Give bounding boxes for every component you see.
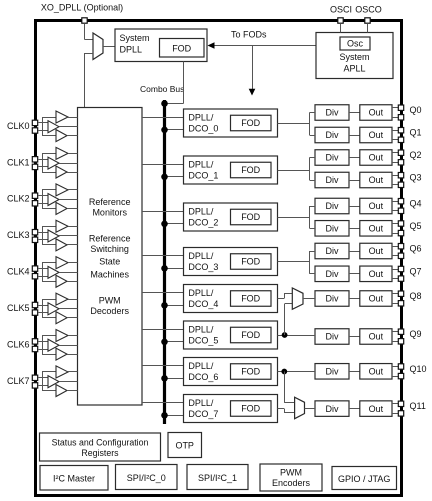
output driver Out Q5 xyxy=(360,221,392,237)
svg-text:CLK4: CLK4 xyxy=(7,267,30,277)
label Reference Monitors xyxy=(89,197,131,218)
junction Combo Bus tap 7 xyxy=(161,412,168,419)
wire Reference Monitors to DPLL/DCO_2 (crosses bus) xyxy=(142,211,184,213)
pin OSCO xyxy=(365,18,370,23)
wire Out Q3 to pins xyxy=(392,176,399,185)
pin Q1 P xyxy=(398,128,403,133)
svg-text:SPI/I²C_1: SPI/I²C_1 xyxy=(198,473,237,483)
pin Q1 N xyxy=(398,137,403,142)
block GPIO / JTAG xyxy=(332,467,397,490)
svg-text:Div: Div xyxy=(326,294,339,304)
svg-text:I²C Master: I²C Master xyxy=(53,473,95,483)
wire Out Q11 to pins xyxy=(392,404,399,414)
wire CLK7 buffer fanout bracket xyxy=(42,372,56,391)
block DPLL/DCO_4 xyxy=(184,285,278,313)
divider Div Q4 xyxy=(315,198,349,214)
pin Q8 P xyxy=(398,291,403,296)
buffer CLK6 single-ended bottom xyxy=(56,348,67,360)
label FOD 2 xyxy=(241,212,260,222)
FOD inside DPLL/DCO_4 xyxy=(231,291,272,307)
wire CLK3 pin stubs xyxy=(38,233,48,240)
svg-text:Out: Out xyxy=(369,404,384,414)
pin CLK0 N xyxy=(32,128,37,133)
svg-text:Div: Div xyxy=(326,153,339,163)
wire Combo Bus to DPLL/DCO_4 xyxy=(165,305,184,307)
svg-text:Out: Out xyxy=(369,108,384,118)
block System APLL xyxy=(316,33,393,79)
wire DPLL/DCO_7 output jog xyxy=(278,409,295,413)
pin Q9 P xyxy=(398,329,403,334)
FOD inside DPLL/DCO_3 xyxy=(231,254,272,270)
pin CLK6 P xyxy=(32,339,37,344)
svg-text:Q10: Q10 xyxy=(410,364,427,374)
label OSCO xyxy=(355,4,382,14)
block DPLL/DCO_1 xyxy=(184,156,278,184)
wire XO_DPLL pin to mux top input xyxy=(85,23,94,39)
svg-text:FOD: FOD xyxy=(241,212,260,222)
wire Combo Bus to DPLL/DCO_5 xyxy=(165,341,184,343)
svg-text:FOD: FOD xyxy=(241,367,260,377)
wire DPLL/DCO_3 output xyxy=(278,261,310,263)
wire DPLL/DCO_6 output to Div Q10 xyxy=(278,371,316,373)
buffer CLK3 differential middle xyxy=(48,230,59,242)
wire CLK4 buffer outputs to Reference Monitors xyxy=(59,263,78,282)
label GPIO / JTAG xyxy=(338,474,390,484)
buffer CLK1 single-ended bottom xyxy=(56,166,67,178)
buffer CLK1 differential middle xyxy=(48,157,59,169)
pin Q4 P xyxy=(398,199,403,204)
wire System DPLL output to Combo Bus xyxy=(165,62,184,104)
arrowhead down toward DPLL/DCO FODs xyxy=(249,89,256,96)
svg-text:FOD: FOD xyxy=(172,44,191,54)
pin Q5 P xyxy=(398,221,403,226)
label DPLL/DCO_3 xyxy=(188,251,218,272)
divider Div Q10 xyxy=(315,364,349,380)
divider Div Q1 xyxy=(315,127,349,143)
label Div Q2 xyxy=(326,153,339,163)
block Reference Monitors / Switching / PWM Decoders xyxy=(78,108,143,406)
label DPLL/DCO_4 xyxy=(188,288,218,309)
wire Reference Monitors to DPLL/DCO_3 (crosses bus) xyxy=(142,255,184,257)
label DPLL/DCO_1 xyxy=(188,159,218,180)
pin XO_DPLL xyxy=(82,18,87,23)
wire Out Q2 to pins xyxy=(392,153,399,163)
divider Div Q3 xyxy=(315,172,349,188)
svg-text:DPLL/: DPLL/ xyxy=(188,159,214,169)
label Out Q4 xyxy=(369,201,384,211)
pin CLK4 N xyxy=(32,274,37,279)
svg-text:DCO_0: DCO_0 xyxy=(188,123,218,133)
output driver Out Q9 xyxy=(360,329,392,345)
svg-text:DPLL/: DPLL/ xyxy=(188,398,214,408)
Osc inside System APLL xyxy=(340,37,370,50)
label SPI/I2C_0 xyxy=(127,473,166,483)
label System DPLL xyxy=(120,33,150,55)
label CLK3 xyxy=(7,230,30,240)
svg-text:DCO_3: DCO_3 xyxy=(188,262,218,272)
svg-text:CLK6: CLK6 xyxy=(7,339,30,349)
pin CLK5 N xyxy=(32,310,37,315)
pin Q5 N xyxy=(398,230,403,235)
wire CLK7 buffer outputs to Reference Monitors xyxy=(59,372,78,391)
block SPI/I2C_1 xyxy=(187,465,248,490)
buffer CLK2 single-ended bottom xyxy=(56,202,67,214)
svg-text:CLK3: CLK3 xyxy=(7,230,30,240)
svg-text:DCO_7: DCO_7 xyxy=(188,409,218,419)
label DPLL/DCO_6 xyxy=(188,361,218,382)
svg-text:Out: Out xyxy=(369,246,384,256)
label Reference Switching State Machines xyxy=(89,234,131,280)
buffer CLK7 single-ended top xyxy=(56,366,68,378)
wire Reference Monitors to DPLL/DCO_0 (crosses bus) xyxy=(142,117,184,119)
label Div Q9 xyxy=(326,332,339,342)
label DPLL/DCO_0 xyxy=(188,112,218,133)
label CLK2 xyxy=(7,194,30,204)
svg-text:DPLL/: DPLL/ xyxy=(188,361,214,371)
label Out Q7 xyxy=(369,269,384,279)
pin CLK0 P xyxy=(32,120,37,125)
wire fork to Q6/Q7 xyxy=(310,251,316,274)
block PWM Encoders xyxy=(260,464,322,491)
svg-text:Out: Out xyxy=(369,294,384,304)
pin Q3 N xyxy=(398,182,403,187)
label FOD 0 xyxy=(241,118,260,128)
label I2C Master xyxy=(53,473,95,483)
pin Q10 N xyxy=(398,373,403,378)
label Div Q8 xyxy=(326,294,339,304)
wire Div to Out Q6 xyxy=(349,251,360,253)
wire Reference Monitors to DPLL/DCO_4 (crosses bus) xyxy=(142,292,184,294)
wire Out Q8 to pins xyxy=(392,294,399,304)
label CLK4 xyxy=(7,267,30,277)
label Div Q6 xyxy=(326,246,339,256)
pin Q7 P xyxy=(398,266,403,271)
wire CLK2 buffer outputs to Reference Monitors xyxy=(59,190,78,209)
wire CLK1 pin stubs xyxy=(38,160,48,167)
wire fork to Q0/Q1 xyxy=(310,113,316,136)
pin CLK1 P xyxy=(32,157,37,162)
wire CLK3 buffer fanout bracket xyxy=(42,226,56,245)
buffer CLK3 single-ended bottom xyxy=(56,239,67,251)
output driver Out Q11 xyxy=(360,401,392,417)
svg-text:Osc: Osc xyxy=(347,39,364,49)
label FOD 3 xyxy=(241,257,260,267)
svg-text:DCO_4: DCO_4 xyxy=(188,299,218,309)
svg-text:Div: Div xyxy=(326,332,339,342)
label OSCI xyxy=(330,4,352,14)
svg-text:Div: Div xyxy=(326,224,339,234)
buffer CLK5 single-ended top xyxy=(56,293,68,305)
svg-text:Out: Out xyxy=(369,153,384,163)
svg-text:Q7: Q7 xyxy=(410,266,422,276)
svg-text:DCO_1: DCO_1 xyxy=(188,170,218,180)
svg-text:PWM: PWM xyxy=(99,296,121,306)
svg-text:Out: Out xyxy=(369,224,384,234)
wire OSCO stub xyxy=(367,23,369,32)
svg-text:State: State xyxy=(99,257,120,267)
wire fork to Q4/Q5 xyxy=(310,206,316,229)
label CLK1 xyxy=(7,157,30,167)
label CLK0 xyxy=(7,121,30,131)
wire CLK3 buffer outputs to Reference Monitors xyxy=(59,227,78,245)
label SPI/I2C_1 xyxy=(198,473,237,483)
label FOD 1 xyxy=(241,165,260,175)
svg-text:Out: Out xyxy=(369,367,384,377)
svg-text:CLK2: CLK2 xyxy=(7,194,30,204)
wire CLK0 pin stubs xyxy=(38,123,48,131)
svg-text:Q9: Q9 xyxy=(410,329,422,339)
label Q0 xyxy=(410,105,422,115)
svg-text:Out: Out xyxy=(369,175,384,185)
divider Div Q0 xyxy=(315,105,349,121)
label Q8 xyxy=(410,291,422,301)
junction Combo Bus tap 4 xyxy=(161,302,168,309)
junction DCO_6 output tap xyxy=(281,369,287,375)
svg-text:Out: Out xyxy=(369,201,384,211)
svg-text:DPLL/: DPLL/ xyxy=(188,324,214,334)
wire Combo Bus to DPLL/DCO_1 xyxy=(165,176,184,178)
svg-text:Div: Div xyxy=(326,269,339,279)
block I2C Master xyxy=(40,466,108,491)
wire CLK4 buffer fanout bracket xyxy=(42,263,56,282)
block DPLL/DCO_3 xyxy=(184,248,278,276)
label Div Q4 xyxy=(326,201,339,211)
label FOD 6 xyxy=(241,367,260,377)
wire Combo Bus to DPLL/DCO_3 xyxy=(165,268,184,270)
buffer CLK7 single-ended bottom xyxy=(56,385,67,397)
wire Div to Out Q0 xyxy=(349,112,360,114)
label CLK6 xyxy=(7,339,30,349)
pin Q11 N xyxy=(398,411,403,416)
svg-text:CLK1: CLK1 xyxy=(7,157,30,167)
svg-text:Div: Div xyxy=(326,175,339,185)
block DPLL/DCO_6 xyxy=(184,358,278,386)
junction Combo Bus tap 6 xyxy=(161,375,168,382)
label Q10 xyxy=(410,364,427,374)
wire DPLL/DCO_1 output xyxy=(278,170,310,172)
svg-text:XO_DPLL (Optional): XO_DPLL (Optional) xyxy=(41,3,123,13)
label DPLL/DCO_2 xyxy=(188,206,218,227)
svg-text:DPLL/: DPLL/ xyxy=(188,206,214,216)
wire Out Q0 to pins xyxy=(392,108,399,118)
pin CLK7 N xyxy=(32,383,37,388)
label Div Q3 xyxy=(326,175,339,185)
svg-text:CLK7: CLK7 xyxy=(7,376,30,386)
wire Div to Out Q11 xyxy=(349,408,360,410)
pin Q6 P xyxy=(398,244,403,249)
output driver Out Q4 xyxy=(360,198,392,214)
label Out Q5 xyxy=(369,224,384,234)
label FOD (System DPLL) xyxy=(172,44,191,54)
divider Div Q8 xyxy=(315,291,349,307)
svg-text:DPLL/: DPLL/ xyxy=(188,112,214,122)
label OTP xyxy=(175,440,194,450)
svg-text:Div: Div xyxy=(326,201,339,211)
svg-text:GPIO / JTAG: GPIO / JTAG xyxy=(338,474,390,484)
mux Q11 xyxy=(295,397,305,419)
junction Combo Bus top xyxy=(161,100,168,107)
wire Out Q4 to pins xyxy=(392,202,399,211)
divider Div Q7 xyxy=(315,266,349,282)
pin Q8 N xyxy=(398,301,403,306)
wire CLK0 buffer outputs to Reference Monitors xyxy=(59,118,78,136)
label Out Q1 xyxy=(369,130,384,140)
svg-text:Q1: Q1 xyxy=(410,128,422,138)
svg-text:Q3: Q3 xyxy=(410,173,422,183)
wire Div to Out Q9 xyxy=(349,336,360,338)
svg-text:DPLL/: DPLL/ xyxy=(188,251,214,261)
wire Reference Monitors to DPLL/DCO_1 (crosses bus) xyxy=(142,164,184,166)
svg-text:CLK5: CLK5 xyxy=(7,303,30,313)
svg-text:OSCI: OSCI xyxy=(330,4,352,14)
FOD inside System DPLL xyxy=(160,39,205,58)
svg-text:Div: Div xyxy=(326,130,339,140)
wire fork to Q2/Q3 xyxy=(310,158,316,181)
block Status and Configuration Registers xyxy=(40,433,161,461)
output driver Out Q8 xyxy=(360,291,392,307)
pin Q6 N xyxy=(398,253,403,258)
mux for System DPLL input xyxy=(93,33,103,60)
pin CLK3 P xyxy=(32,230,37,235)
svg-text:Q6: Q6 xyxy=(410,244,422,254)
wire Out Q6 to pins xyxy=(392,247,399,256)
FOD inside DPLL/DCO_0 xyxy=(231,115,272,131)
label CLK7 xyxy=(7,376,30,386)
wire Combo Bus to DPLL/DCO_0 xyxy=(165,129,184,131)
wire Out Q9 to pins xyxy=(392,332,399,342)
label System APLL xyxy=(339,52,369,74)
wire Out Q10 to pins xyxy=(392,367,399,377)
label Osc xyxy=(347,39,364,49)
buffer CLK2 differential middle xyxy=(48,194,59,206)
pin Q9 N xyxy=(398,339,403,344)
wire Div to Out Q10 xyxy=(349,371,360,373)
svg-text:Out: Out xyxy=(369,130,384,140)
label Out Q0 xyxy=(369,108,384,118)
label CLK5 xyxy=(7,303,30,313)
wire CLK6 pin stubs xyxy=(38,342,48,350)
label Out Q2 xyxy=(369,153,384,163)
label DPLL/DCO_5 xyxy=(188,324,218,345)
buffer CLK5 differential middle xyxy=(48,303,59,315)
wire mux output to System DPLL xyxy=(103,46,115,48)
wire mux bottom input from Reference Monitors xyxy=(85,53,94,108)
wire DPLL/DCO_0 output xyxy=(278,123,310,125)
buffer CLK4 single-ended top xyxy=(56,257,68,269)
buffer CLK2 single-ended top xyxy=(56,184,68,196)
svg-text:Q0: Q0 xyxy=(410,105,422,115)
pin Q2 P xyxy=(398,150,403,155)
label Out Q6 xyxy=(369,246,384,256)
svg-text:Q8: Q8 xyxy=(410,291,422,301)
pin CLK3 N xyxy=(32,237,37,242)
wire CLK1 buffer fanout bracket xyxy=(42,153,56,172)
buffer CLK0 differential middle xyxy=(48,121,59,133)
wire Combo Bus to DPLL/DCO_7 xyxy=(165,415,184,417)
svg-text:DPLL/: DPLL/ xyxy=(188,288,214,298)
arrowhead into System DPLL FOD xyxy=(208,42,215,49)
wire Div to Out Q5 xyxy=(349,228,360,230)
label FOD 4 xyxy=(241,294,260,304)
wire DPLL/DCO_5 output to Div Q9 xyxy=(278,335,316,337)
wire Reference Monitors to DPLL/DCO_6 (crosses bus) xyxy=(142,365,184,367)
pin CLK5 P xyxy=(32,302,37,307)
svg-text:Div: Div xyxy=(326,108,339,118)
pin Q2 N xyxy=(398,160,403,165)
wire CLK0 buffer fanout bracket xyxy=(42,117,56,136)
buffer CLK7 differential middle xyxy=(48,376,59,388)
svg-text:Q4: Q4 xyxy=(410,199,422,209)
svg-text:DCO_6: DCO_6 xyxy=(188,372,218,382)
label Out Q10 xyxy=(369,367,384,377)
junction Combo Bus tap 0 xyxy=(161,127,168,134)
wire Combo Bus to DPLL/DCO_6 xyxy=(165,378,184,380)
wire Out Q7 to pins xyxy=(392,270,399,279)
svg-text:Registers: Registers xyxy=(81,448,119,458)
pin CLK2 P xyxy=(32,193,37,198)
label Q9 xyxy=(410,329,422,339)
wire Out Q5 to pins xyxy=(392,224,399,234)
wire CLK1 buffer outputs to Reference Monitors xyxy=(59,154,78,173)
divider Div Q9 xyxy=(315,329,349,345)
junction Combo Bus tap 2 xyxy=(161,221,168,228)
divider Div Q2 xyxy=(315,150,349,166)
wire Reference Monitors to DPLL/DCO_7 (crosses bus) xyxy=(142,402,184,404)
block DPLL/DCO_7 xyxy=(184,395,278,423)
svg-text:FOD: FOD xyxy=(241,165,260,175)
buffer CLK4 single-ended bottom xyxy=(56,275,67,287)
divider Div Q11 xyxy=(315,401,349,417)
output driver Out Q3 xyxy=(360,172,392,188)
output driver Out Q6 xyxy=(360,243,392,259)
label Div Q1 xyxy=(326,130,339,140)
pin OSCI xyxy=(338,18,343,23)
label Div Q7 xyxy=(326,269,339,279)
svg-text:DCO_5: DCO_5 xyxy=(188,335,218,345)
wire DCO_6 tap down to Q11 mux xyxy=(284,372,294,403)
svg-text:Reference: Reference xyxy=(89,197,131,207)
FOD inside DPLL/DCO_1 xyxy=(231,162,272,178)
svg-text:Combo Bus: Combo Bus xyxy=(140,84,184,94)
label Q2 xyxy=(410,150,422,160)
svg-text:System: System xyxy=(339,52,369,62)
block SPI/I2C_0 xyxy=(116,465,178,490)
svg-text:Status and Configuration: Status and Configuration xyxy=(52,437,149,447)
buffer CLK0 single-ended bottom xyxy=(56,130,67,142)
wire CLK2 pin stubs xyxy=(38,196,48,204)
label PWM Encoders xyxy=(272,467,311,488)
label Div Q0 xyxy=(326,108,339,118)
wire DPLL/DCO_2 output xyxy=(278,217,310,219)
block DPLL/DCO_0 xyxy=(184,109,278,137)
label Div Q10 xyxy=(326,367,339,377)
svg-text:Monitors: Monitors xyxy=(92,208,127,218)
label Q3 xyxy=(410,173,422,183)
svg-text:FOD: FOD xyxy=(241,118,260,128)
wire Q8 mux output xyxy=(303,298,315,300)
wire CLK4 pin stubs xyxy=(38,269,48,277)
wire Div to Out Q3 xyxy=(349,180,360,182)
svg-text:Div: Div xyxy=(326,246,339,256)
output driver Out Q0 xyxy=(360,105,392,121)
wire To FODs from System APLL xyxy=(214,45,316,47)
wire CLK5 pin stubs xyxy=(38,306,48,313)
buffer CLK0 single-ended top xyxy=(56,111,68,123)
wire CLK7 pin stubs xyxy=(38,378,48,386)
svg-text:Q2: Q2 xyxy=(410,150,422,160)
pin Q3 P xyxy=(398,173,403,178)
label Out Q3 xyxy=(369,175,384,185)
